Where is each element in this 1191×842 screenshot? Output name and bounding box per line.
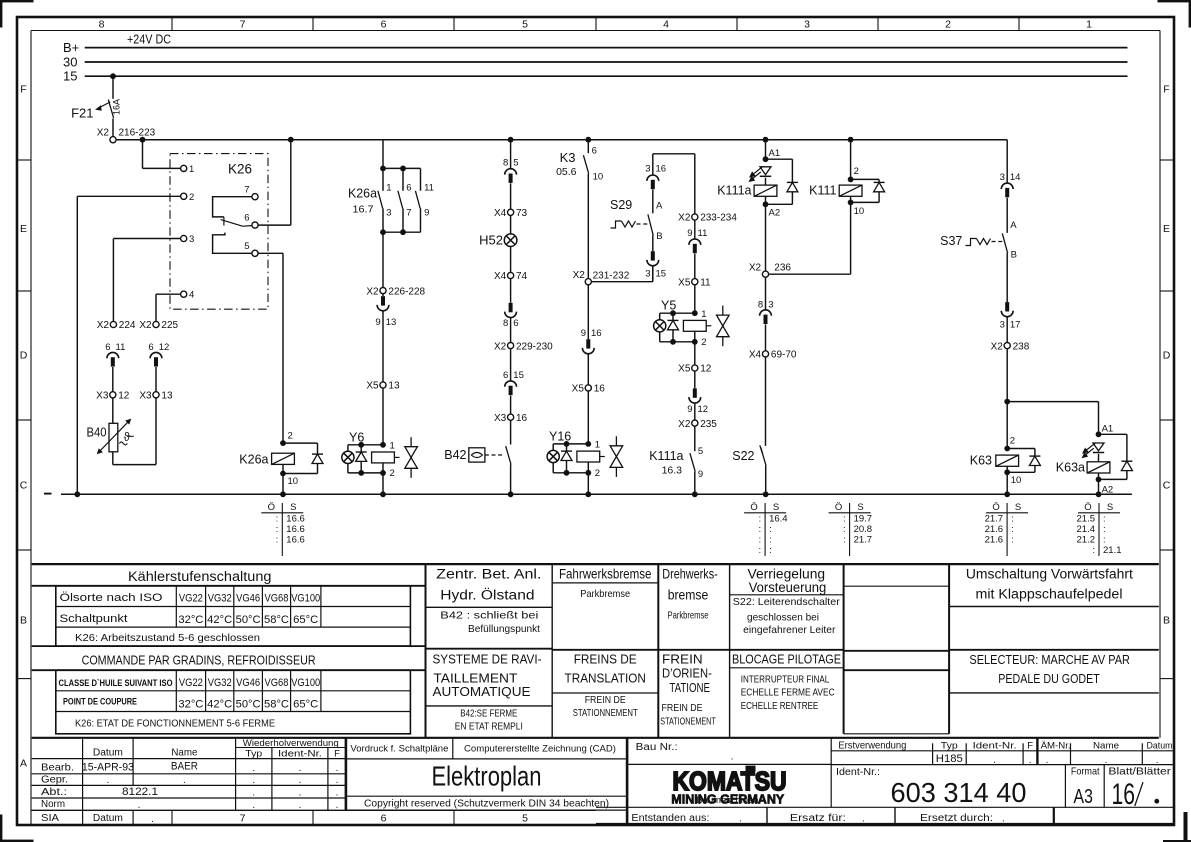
svg-text:.: . — [299, 775, 302, 786]
wire X5 16 to Y16 — [587, 391, 589, 444]
top coordinate band dividers — [171, 17, 173, 31]
svg-text:Ö: Ö — [268, 502, 275, 513]
svg-text:Ö: Ö — [1084, 502, 1091, 513]
svg-text:65°C: 65°C — [293, 699, 318, 711]
contact table S22 — [764, 503, 766, 556]
svg-text:.: . — [183, 775, 186, 786]
svg-text:16: 16 — [656, 163, 667, 174]
svg-text:VG68: VG68 — [265, 677, 289, 689]
node X2 235 — [692, 420, 698, 426]
bottom row Entstanden aus — [596, 806, 1174, 808]
svg-text:6: 6 — [381, 18, 387, 30]
svg-text:16.6: 16.6 — [286, 524, 305, 535]
svg-text:6: 6 — [503, 370, 508, 381]
svg-text:236: 236 — [774, 263, 791, 274]
svg-text:9: 9 — [687, 404, 692, 415]
node X2 238 — [1004, 343, 1010, 349]
svg-text:13: 13 — [161, 391, 173, 402]
svg-text:VG68: VG68 — [265, 593, 289, 605]
right row dividers — [1160, 159, 1174, 161]
svg-text:6: 6 — [406, 182, 411, 193]
level switch B42 — [510, 420, 512, 444]
svg-text:eingefahrener Leiter: eingefahrener Leiter — [743, 624, 836, 636]
node X2 225 — [153, 321, 159, 327]
node X4 74 — [508, 272, 514, 278]
connector 3|16 — [652, 154, 654, 175]
svg-text:.: . — [739, 814, 742, 825]
svg-text:5: 5 — [244, 241, 249, 252]
svg-text:Zentr. Bet. Anl.: Zentr. Bet. Anl. — [436, 566, 541, 581]
svg-text:15-APR-93: 15-APR-93 — [82, 761, 134, 773]
rail junction dots — [74, 491, 80, 497]
hydraulic valve symbol Y6 — [410, 437, 412, 447]
svg-text:2: 2 — [701, 337, 706, 348]
wire bus to K26 pin1 — [140, 137, 146, 143]
svg-text:15: 15 — [63, 69, 77, 84]
svg-text:Drehwerks-: Drehwerks- — [662, 566, 718, 581]
svg-text:9: 9 — [698, 469, 703, 480]
svg-text:X5: X5 — [572, 384, 585, 395]
svg-text:16: 16 — [594, 384, 606, 395]
svg-text:Ident-Nr.: Ident-Nr. — [278, 748, 322, 759]
svg-text:ECHELLE FERME AVEC: ECHELLE FERME AVEC — [741, 687, 835, 699]
svg-text:C: C — [20, 480, 28, 492]
svg-text:X2: X2 — [97, 127, 110, 138]
svg-text:mit Klappschaufelpedel: mit Klappschaufelpedel — [976, 587, 1123, 602]
svg-text:K26a: K26a — [239, 452, 268, 466]
wire bus to S37 — [1006, 140, 1008, 183]
wire X2 238 to K63 and K63a — [1006, 349, 1008, 449]
svg-text:224: 224 — [119, 320, 136, 331]
svg-text:.: . — [252, 775, 255, 786]
svg-text:15: 15 — [513, 370, 524, 381]
svg-text:21.5: 21.5 — [1077, 513, 1096, 524]
node X2 236 — [762, 271, 768, 277]
svg-text:Copyright reserved (Schutzverm: Copyright reserved (Schutzvermerk DIN 34… — [364, 798, 609, 810]
svg-text:X4: X4 — [494, 271, 507, 282]
svg-text:3: 3 — [1000, 319, 1005, 330]
svg-text:X2: X2 — [139, 320, 152, 331]
svg-text:PEDALE DU GODET: PEDALE DU GODET — [998, 671, 1100, 686]
inner border frame — [31, 30, 1160, 32]
svg-text:.: . — [731, 752, 734, 763]
svg-text:2: 2 — [390, 468, 395, 479]
svg-text:6: 6 — [244, 213, 249, 224]
connector 8|3 — [765, 277, 767, 310]
node X3 13 — [153, 392, 159, 398]
svg-text:F: F — [1027, 740, 1033, 751]
svg-text:.: . — [336, 775, 339, 786]
svg-text:A: A — [20, 758, 27, 770]
svg-text:21.7: 21.7 — [985, 513, 1004, 524]
node X2 229-230 — [508, 343, 514, 349]
svg-text:10: 10 — [854, 206, 865, 217]
svg-text::: : — [769, 535, 772, 546]
svg-text:X3: X3 — [139, 391, 152, 402]
wire X3 13 down — [155, 398, 157, 465]
svg-text:Bearb.: Bearb. — [41, 761, 74, 773]
svg-text:8: 8 — [99, 18, 105, 30]
connector 3|15 — [651, 251, 655, 260]
svg-text:S: S — [1107, 502, 1113, 513]
wire K26 pin6 to bus — [258, 224, 291, 226]
svg-text:Typ: Typ — [941, 740, 958, 751]
svg-text:STATIONNEMENT: STATIONNEMENT — [573, 707, 638, 719]
svg-text:H52: H52 — [479, 233, 503, 248]
svg-text:S: S — [1015, 502, 1021, 513]
svg-text:1: 1 — [1086, 18, 1092, 30]
svg-text:11: 11 — [700, 277, 711, 288]
svg-text:.: . — [151, 814, 154, 825]
svg-text:.: . — [138, 800, 141, 811]
svg-text:Kählerstufenschaltung: Kählerstufenschaltung — [128, 569, 272, 584]
wire contacts to X2 226-228 — [382, 232, 384, 287]
svg-text:X5: X5 — [678, 277, 691, 288]
svg-text:Ident-Nr.: Ident-Nr. — [973, 740, 1017, 751]
svg-text:.: . — [1046, 755, 1049, 766]
K63 suppressor diode — [1007, 448, 1035, 450]
svg-text:A: A — [1010, 220, 1017, 231]
svg-text:.: . — [336, 763, 339, 774]
svg-text:X2: X2 — [97, 320, 110, 331]
svg-text:S: S — [857, 502, 863, 513]
svg-text:Schaltpunkt: Schaltpunkt — [60, 613, 128, 625]
svg-text:S29: S29 — [610, 198, 632, 212]
K26 pin 1 — [181, 165, 187, 171]
svg-text:VG100: VG100 — [291, 677, 320, 689]
svg-text:X3: X3 — [96, 391, 109, 402]
hydraulic valve symbol Y16 — [615, 436, 617, 446]
K26 pin 2 — [181, 193, 187, 199]
svg-text:6: 6 — [105, 342, 110, 353]
relay coil K26a — [280, 440, 286, 446]
svg-text:K63a: K63a — [1056, 461, 1085, 475]
svg-text:STATIONEMENT: STATIONEMENT — [660, 715, 716, 727]
svg-text:229-230: 229-230 — [516, 341, 553, 352]
svg-text:POINT DE COUPURE: POINT DE COUPURE — [63, 697, 137, 708]
svg-text:Format: Format — [1071, 766, 1100, 778]
svg-text:.: . — [299, 763, 302, 774]
svg-text:.: . — [1156, 755, 1159, 766]
svg-text:50°C: 50°C — [236, 614, 261, 626]
rail 30 — [85, 61, 1128, 63]
svg-text:FREIN DE: FREIN DE — [662, 702, 703, 714]
svg-text:225: 225 — [161, 320, 178, 331]
svg-text:216-223: 216-223 — [119, 127, 156, 138]
wire X2 236 to K111 — [769, 273, 851, 275]
svg-text:3: 3 — [1000, 172, 1005, 183]
svg-text:E: E — [1163, 223, 1170, 235]
svg-text:5: 5 — [522, 18, 528, 30]
wire bus to K26a contacts — [382, 140, 384, 169]
svg-text::: : — [758, 545, 761, 556]
svg-text::: : — [1092, 545, 1095, 556]
svg-text:16.3: 16.3 — [662, 465, 683, 477]
svg-text:3: 3 — [768, 299, 773, 310]
svg-text:21.2: 21.2 — [1077, 535, 1096, 546]
svg-text:4: 4 — [189, 290, 194, 301]
svg-text:D: D — [1163, 350, 1171, 362]
svg-text:20.8: 20.8 — [854, 524, 873, 535]
svg-text::: : — [276, 535, 279, 546]
svg-text:10: 10 — [593, 171, 604, 182]
node X4 73 — [508, 209, 514, 215]
K26 contact 7-6 — [213, 197, 252, 217]
svg-text:Ö: Ö — [835, 502, 842, 513]
svg-text:Ident-Nr.:: Ident-Nr.: — [836, 767, 880, 778]
svg-text:.: . — [1002, 814, 1005, 825]
svg-text:Blatt/Blätter: Blatt/Blätter — [1108, 766, 1171, 778]
svg-text:VG22: VG22 — [179, 677, 203, 689]
svg-text:.: . — [252, 788, 255, 799]
svg-text:A1: A1 — [1102, 423, 1114, 434]
svg-text:S: S — [773, 502, 779, 513]
relay coil K111 — [848, 137, 854, 143]
svg-text:8: 8 — [758, 299, 763, 310]
svg-text:1: 1 — [595, 440, 600, 451]
node X5 12 — [692, 365, 698, 371]
svg-text::: : — [758, 513, 761, 524]
svg-text:17: 17 — [1010, 319, 1021, 330]
svg-text:235: 235 — [700, 419, 717, 430]
svg-text::: : — [758, 535, 761, 546]
wire K26 pin2 to minus rail — [77, 195, 180, 197]
K26 pin 5 — [252, 250, 258, 256]
svg-text:Vorsteuerung: Vorsteuerung — [749, 580, 827, 595]
svg-text:Befüllungspunkt: Befüllungspunkt — [468, 623, 540, 635]
K26 pin 7 — [252, 194, 258, 200]
Erstverwendung header row — [831, 750, 1174, 752]
svg-text:1: 1 — [386, 182, 391, 193]
svg-text:X2: X2 — [366, 286, 379, 297]
svg-text:Elektroplan: Elektroplan — [432, 761, 542, 792]
svg-text:K111: K111 — [809, 184, 836, 198]
svg-text:Hydr. Ölstand: Hydr. Ölstand — [440, 588, 534, 603]
svg-text:4: 4 — [663, 18, 669, 30]
svg-text:3: 3 — [189, 234, 194, 245]
svg-text:12: 12 — [698, 404, 709, 415]
svg-text:X2: X2 — [678, 419, 691, 430]
K26a suppressor diode — [283, 442, 318, 444]
empty middle block cell lines — [844, 585, 950, 587]
svg-text:CLASSE D`HUILE SUIVANT ISO: CLASSE D`HUILE SUIVANT ISO — [59, 678, 173, 689]
node X2 216-223 — [110, 137, 116, 143]
svg-text:B: B — [656, 231, 662, 242]
Kuehlerstufen table german — [32, 585, 426, 587]
svg-text:K111a: K111a — [717, 184, 751, 198]
svg-text:30: 30 — [63, 54, 77, 69]
svg-text:05.6: 05.6 — [556, 166, 577, 178]
svg-text:1: 1 — [390, 441, 395, 452]
wire X3 12 to B40 — [112, 398, 114, 423]
svg-text:FREIN DE: FREIN DE — [585, 694, 626, 706]
K111a suppressor diode — [766, 158, 793, 160]
svg-text:EN ETAT REMPLI: EN ETAT REMPLI — [455, 721, 523, 733]
svg-text:12: 12 — [700, 364, 712, 375]
svg-text:S22: Leiterendschalter: S22: Leiterendschalter — [733, 596, 841, 608]
svg-text:Fahrwerksbremse: Fahrwerksbremse — [559, 566, 652, 581]
svg-text:VG46: VG46 — [236, 677, 260, 689]
svg-text:S22: S22 — [732, 449, 754, 463]
svg-text:65°C: 65°C — [293, 614, 318, 626]
svg-text:2: 2 — [288, 431, 293, 442]
svg-text:F: F — [1163, 84, 1169, 96]
svg-text:3: 3 — [804, 18, 810, 30]
svg-text:2: 2 — [189, 192, 194, 203]
wire B40 bottom loop — [112, 452, 114, 465]
svg-text::: : — [276, 524, 279, 535]
svg-text::: : — [1103, 524, 1106, 535]
svg-text::: : — [1011, 535, 1014, 546]
svg-text::: : — [1103, 535, 1106, 546]
svg-text:8122.1: 8122.1 — [122, 786, 158, 798]
svg-text:Datum: Datum — [93, 747, 123, 758]
svg-text:5: 5 — [522, 813, 528, 825]
K26 contact 5 fixed hook — [213, 233, 252, 254]
svg-text:SYSTEME DE RAVI-: SYSTEME DE RAVI- — [433, 651, 542, 666]
svg-text:2: 2 — [854, 166, 859, 177]
svg-text:SIA: SIA — [41, 812, 59, 824]
node X3 16 — [508, 414, 514, 420]
svg-text:7: 7 — [406, 207, 411, 218]
svg-text:2: 2 — [1010, 435, 1015, 446]
svg-text:BAER: BAER — [171, 760, 198, 772]
svg-text:.: . — [299, 788, 302, 799]
node X5 16 — [585, 385, 591, 391]
svg-text:X5: X5 — [678, 364, 691, 375]
svg-text:Entstanden aus:: Entstanden aus: — [631, 813, 709, 824]
svg-text:K3: K3 — [560, 150, 576, 165]
K111 suppressor diode — [851, 178, 880, 180]
svg-text:10: 10 — [288, 476, 299, 487]
svg-text:13: 13 — [386, 317, 397, 328]
svg-text:16: 16 — [1112, 778, 1136, 811]
svg-text:.: . — [862, 814, 865, 825]
svg-text:B42: B42 — [444, 448, 466, 462]
svg-text:231-232: 231-232 — [593, 270, 630, 281]
svg-text:233-234: 233-234 — [700, 213, 737, 224]
svg-text:X2: X2 — [573, 270, 586, 281]
svg-text:3: 3 — [645, 163, 650, 174]
svg-text:8: 8 — [503, 318, 508, 329]
svg-text::: : — [843, 535, 846, 546]
svg-text:2: 2 — [595, 468, 600, 479]
svg-text:21.7: 21.7 — [854, 535, 873, 546]
svg-text:+24V DC: +24V DC — [127, 33, 171, 47]
svg-text::: : — [758, 524, 761, 535]
svg-text:58°C: 58°C — [264, 699, 289, 711]
svg-text:15: 15 — [656, 268, 667, 279]
svg-text:ECHELLE RENTREE: ECHELLE RENTREE — [741, 700, 819, 712]
svg-text:X2: X2 — [678, 213, 691, 224]
connector 9|12 — [694, 371, 696, 388]
contact table K111 — [849, 503, 851, 556]
svg-text:1: 1 — [189, 164, 194, 175]
junction rail15/F21 — [110, 73, 116, 79]
wire X5 13 to Y6 — [382, 388, 384, 445]
svg-text:B42 : schließt bei: B42 : schließt bei — [440, 610, 538, 622]
svg-text:.: . — [299, 800, 302, 811]
corner crop mark top-left — [0, 0, 34, 2]
svg-text:X4: X4 — [494, 208, 507, 219]
K63a suppressor diode — [1099, 433, 1127, 435]
svg-text:A: A — [656, 200, 663, 211]
contact table K63a — [1098, 503, 1100, 556]
node X2 233-234 — [692, 214, 698, 220]
svg-text:S37: S37 — [940, 234, 962, 248]
svg-text:Datum: Datum — [1147, 740, 1173, 751]
fuse breaker F21 — [112, 76, 114, 99]
svg-text::: : — [769, 524, 772, 535]
svg-text:9: 9 — [375, 317, 380, 328]
svg-text:21.6: 21.6 — [985, 524, 1004, 535]
svg-text:ÄM-Nr.: ÄM-Nr. — [1041, 740, 1071, 751]
svg-text:7: 7 — [244, 184, 249, 195]
svg-text:X4: X4 — [749, 350, 762, 361]
contact K26a 11-9 — [403, 167, 421, 169]
svg-text:603 314 40: 603 314 40 — [891, 777, 1027, 808]
svg-text:bremse: bremse — [668, 588, 709, 603]
limit switch S22 — [765, 357, 767, 446]
svg-text::: : — [1011, 513, 1014, 524]
svg-text:74: 74 — [516, 271, 528, 282]
svg-text::: : — [843, 524, 846, 535]
contact K26a 6-7 — [383, 167, 403, 169]
svg-text:K26: ETAT DE FONCTIONNEMENT 5-: K26: ETAT DE FONCTIONNEMENT 5-6 FERME — [75, 718, 275, 730]
svg-text:3: 3 — [386, 207, 391, 218]
svg-text:.: . — [1029, 755, 1032, 766]
svg-text:8: 8 — [503, 157, 508, 168]
svg-text:9: 9 — [424, 207, 429, 218]
svg-text:Gepr.: Gepr. — [41, 773, 68, 785]
svg-text::: : — [1103, 513, 1106, 524]
svg-text:FREINS DE: FREINS DE — [574, 651, 637, 666]
svg-text:16.4: 16.4 — [769, 513, 788, 524]
svg-text:K111a: K111a — [649, 449, 683, 463]
connector 9|11 — [694, 220, 696, 239]
svg-text:C: C — [1163, 480, 1171, 492]
svg-text:COMMANDE PAR GRADINS, REFROIDI: COMMANDE PAR GRADINS, REFROIDISSEUR — [82, 652, 316, 667]
svg-text::: : — [1011, 524, 1014, 535]
svg-text:9: 9 — [581, 328, 586, 339]
svg-text:.: . — [336, 800, 339, 811]
svg-text:5: 5 — [513, 157, 518, 168]
contact table K26a — [281, 503, 283, 556]
K26 dashed enclosure — [170, 154, 268, 310]
svg-text:MINING GERMANY: MINING GERMANY — [671, 792, 785, 806]
svg-text:Y16: Y16 — [549, 429, 571, 443]
svg-text:.: . — [252, 800, 255, 811]
svg-text:INTERRUPTEUR FINAL: INTERRUPTEUR FINAL — [741, 673, 830, 685]
svg-text:16.6: 16.6 — [286, 513, 305, 524]
svg-text:Name: Name — [1093, 740, 1119, 751]
svg-text:Parkbremse: Parkbremse — [580, 588, 630, 600]
minus rail label — [44, 493, 52, 495]
svg-text:21.1: 21.1 — [1103, 545, 1122, 556]
svg-text:geschlossen bei: geschlossen bei — [747, 611, 819, 623]
svg-text:58°C: 58°C — [264, 614, 289, 626]
svg-text:21.4: 21.4 — [1077, 524, 1096, 535]
svg-text:7: 7 — [240, 18, 246, 30]
svg-text:F: F — [20, 84, 26, 96]
svg-text:73: 73 — [516, 208, 528, 219]
svg-text:Parkbremse: Parkbremse — [668, 609, 709, 621]
svg-text::: : — [843, 513, 846, 524]
svg-text:32°C: 32°C — [178, 614, 203, 626]
svg-text:A2: A2 — [769, 208, 781, 219]
svg-text:X2: X2 — [494, 341, 507, 352]
svg-text:FREIN: FREIN — [662, 651, 703, 666]
